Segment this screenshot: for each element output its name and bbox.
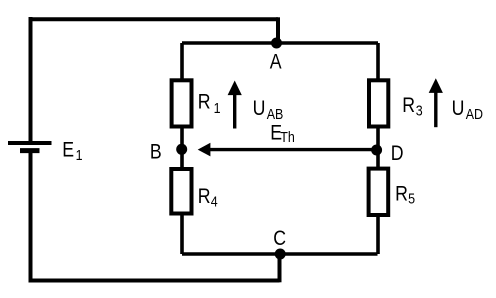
wire: R1 to node B: [180, 127, 184, 170]
svg-text:R: R: [395, 182, 408, 206]
wire: outer top (battery + to node A feed): [29, 17, 279, 21]
arrow E_Th (pointing left from D to B): [198, 143, 374, 157]
wire: bottom feed rise to node C: [278, 252, 282, 282]
svg-text:AB: AB: [267, 105, 284, 122]
label E_Th: [270, 121, 295, 145]
label node C: [273, 227, 286, 251]
svg-text:R: R: [402, 93, 415, 117]
arrow U_AB (voltage arrow, up): [228, 81, 242, 129]
wire: outer bottom: [29, 279, 280, 283]
label R3: [402, 93, 423, 119]
svg-text:B: B: [150, 140, 162, 164]
wire: top rail to R1: [180, 43, 184, 80]
wire: R4 to bottom rail: [180, 214, 184, 255]
label node A: [270, 50, 283, 74]
node A: [271, 38, 282, 49]
svg-text:E: E: [62, 138, 74, 162]
wire: outer left lower (battery bottom lead): [29, 151, 33, 283]
resistor R3: [369, 80, 388, 126]
resistor R5: [369, 169, 389, 215]
label R4: [198, 185, 218, 210]
label U_AB: [253, 96, 284, 122]
node B: [176, 144, 187, 155]
svg-text:3: 3: [416, 101, 423, 118]
svg-text:R: R: [198, 90, 211, 114]
svg-text:U: U: [452, 96, 465, 120]
label U_AD: [452, 96, 483, 122]
wire: R5 to bottom rail: [376, 215, 380, 254]
resistor R4: [171, 169, 191, 214]
svg-text:A: A: [270, 50, 283, 74]
resistor R1: [172, 80, 192, 126]
label R5: [395, 182, 415, 207]
battery E1 long plate: [8, 141, 52, 145]
label node B: [150, 140, 162, 164]
svg-text:1: 1: [214, 99, 221, 116]
arrow U_AD (voltage arrow, up): [429, 78, 443, 127]
wire: top feed drop to node A: [276, 17, 280, 43]
wire: bridge bottom rail through node C: [182, 252, 378, 256]
label E1: [62, 138, 82, 163]
node D: [371, 145, 382, 156]
wire: top rail to R3: [376, 43, 380, 80]
svg-text:C: C: [273, 227, 286, 251]
wire: outer left upper (battery top lead): [29, 17, 33, 141]
svg-text:D: D: [391, 141, 404, 165]
node C: [275, 249, 286, 260]
svg-text:1: 1: [76, 146, 83, 163]
svg-text:Th: Th: [280, 128, 295, 145]
wire: bridge top rail through node A: [182, 41, 378, 45]
svg-text:R: R: [198, 185, 211, 209]
label R1: [198, 90, 221, 116]
label node D: [391, 141, 404, 165]
wire: R3 to node D: [376, 127, 380, 170]
svg-text:U: U: [253, 96, 266, 120]
svg-text:AD: AD: [466, 105, 483, 122]
svg-text:5: 5: [408, 189, 415, 206]
svg-text:4: 4: [211, 192, 218, 209]
battery E1 short plate: [20, 148, 40, 153]
